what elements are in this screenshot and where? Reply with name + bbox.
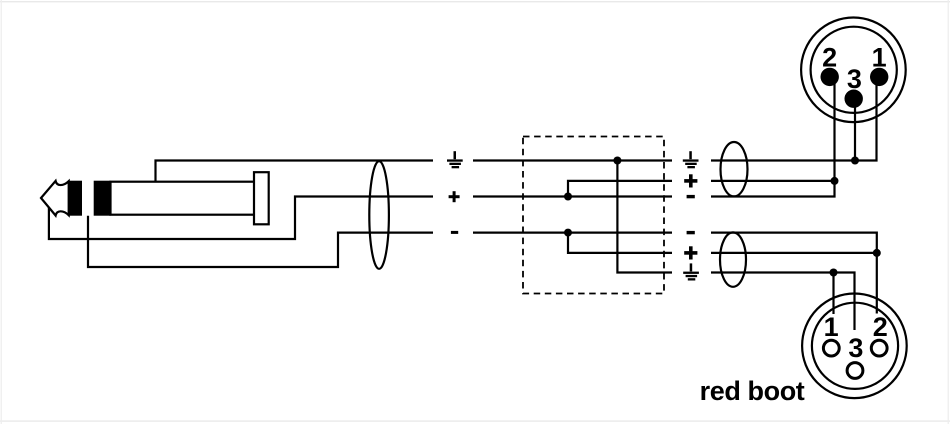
- svg-text:1: 1: [824, 312, 839, 342]
- connector X1 male XLR outer shell: [801, 18, 906, 123]
- jack plug J1 tip band: [69, 181, 82, 216]
- junction dot: female pin1 to ground wire: [830, 269, 838, 277]
- svg-text:1: 1: [872, 43, 887, 73]
- svg-text:red boot: red boot: [700, 376, 805, 406]
- wire: ring contact down and under jack: [88, 216, 433, 267]
- junction box (dashed): [523, 137, 664, 294]
- female XLR pin 3: [847, 363, 863, 379]
- male XLR pin 1: [870, 68, 888, 86]
- wire: ground core to female XLR pin 3: [711, 273, 855, 331]
- wire: plus branch inside box (lower): [568, 233, 672, 253]
- wire: ring net through dashed box: [473, 232, 672, 234]
- wire: male XLR pin 3 drop to ground net: [854, 104, 856, 161]
- junction dot: box tip tap: [564, 193, 572, 201]
- connector X2 female XLR outer shell: [802, 294, 907, 399]
- jack plug J1 tip: [41, 181, 69, 216]
- cable ferrule ellipse (main, at jack side): [369, 161, 389, 269]
- wire: plus core to female XLR: [711, 252, 877, 254]
- wire: ground net to male XLR pin 1: [711, 83, 877, 161]
- wire: plus core to male XLR pin 2: [711, 180, 835, 182]
- wire: male XLR pin 2 drop: [833, 83, 835, 181]
- wire: ground branch inside box: [617, 161, 672, 273]
- wire: tip net through dashed box: [473, 195, 672, 197]
- female XLR pin 2: [871, 340, 887, 356]
- jack plug J1 barrel: [111, 182, 255, 215]
- junction dot: male pin3 to ground wire: [851, 157, 859, 165]
- plus symbol (left column, tip wire): [449, 191, 460, 202]
- minus symbol (left column, ring wire): [451, 231, 458, 234]
- jack plug J1 ring band: [94, 181, 111, 216]
- ground symbol (right column, female cable): [683, 263, 699, 280]
- svg-text:2: 2: [822, 43, 837, 73]
- plus symbol (right column, female plus core): [684, 246, 697, 259]
- connector X1 male XLR insert: [811, 27, 897, 113]
- female XLR pin 1: [823, 340, 839, 356]
- junction dot: female pin2 to plus wire: [873, 249, 881, 257]
- connector X2 female XLR insert: [812, 303, 898, 389]
- junction dot: box ground tap: [613, 157, 621, 165]
- svg-text:3: 3: [847, 64, 862, 94]
- male XLR pin 2: [821, 68, 839, 86]
- wire: minus core to female XLR pin 2: [711, 233, 877, 314]
- jack plug J1 collar: [254, 172, 269, 224]
- cable ferrule ellipse (top): [721, 142, 748, 196]
- svg-text:3: 3: [848, 333, 863, 363]
- junction dot: box ring tap: [564, 229, 572, 237]
- ground symbol (right column, male cable): [683, 151, 699, 168]
- wire: ground net into dashed box: [473, 159, 672, 161]
- wire: female XLR pin 1 drop: [832, 273, 834, 315]
- svg-text:2: 2: [873, 312, 888, 342]
- wire: plus branch inside box: [568, 181, 672, 197]
- junction dot: male pin2 to plus wire: [831, 177, 839, 185]
- male XLR pin 3: [845, 90, 863, 108]
- cable ferrule ellipse (bottom): [720, 232, 746, 286]
- wire: minus core to male XLR: [711, 181, 835, 197]
- minus symbol (right column, male minus core): [687, 195, 695, 198]
- ground symbol (left column, sleeve wire): [447, 151, 463, 168]
- plus symbol (right column, male plus core): [684, 174, 697, 187]
- wire: sleeve to ground net: [156, 161, 434, 182]
- minus symbol (right column, female minus core): [687, 231, 695, 234]
- wire: tip contact down and under jack: [49, 197, 433, 240]
